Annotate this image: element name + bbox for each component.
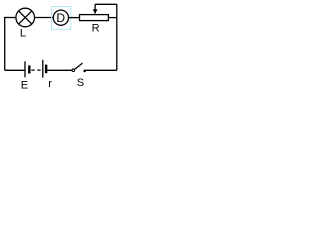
svg-text:S: S — [77, 77, 84, 89]
wire left vertical — [4, 18, 6, 71]
wire dashed between cells — [31, 69, 40, 71]
wire resistor to right — [108, 17, 116, 19]
wire bottom-left — [5, 69, 25, 71]
svg-text:R: R — [92, 23, 100, 35]
svg-text:D: D — [56, 11, 65, 25]
switch S — [72, 63, 86, 72]
internal resistance r (cell 2) — [43, 60, 46, 78]
wire battery to switch — [47, 69, 72, 71]
wire wiper top — [95, 3, 117, 5]
lamp L — [16, 8, 35, 27]
battery E (cell 1) — [25, 61, 29, 77]
wire top-left to lamp — [4, 17, 16, 19]
resistor R (rheostat body) — [80, 15, 109, 21]
wire right vertical — [116, 4, 118, 70]
svg-text:L: L — [20, 27, 26, 39]
wire switch to right — [86, 69, 117, 71]
svg-text:E: E — [21, 80, 28, 89]
meter D — [53, 10, 68, 25]
wire lamp to meter — [35, 17, 54, 19]
selection highlight box — [52, 7, 71, 30]
svg-text:r: r — [48, 78, 52, 89]
rheostat wiper arrow — [93, 4, 98, 14]
wire meter to resistor — [69, 17, 80, 19]
